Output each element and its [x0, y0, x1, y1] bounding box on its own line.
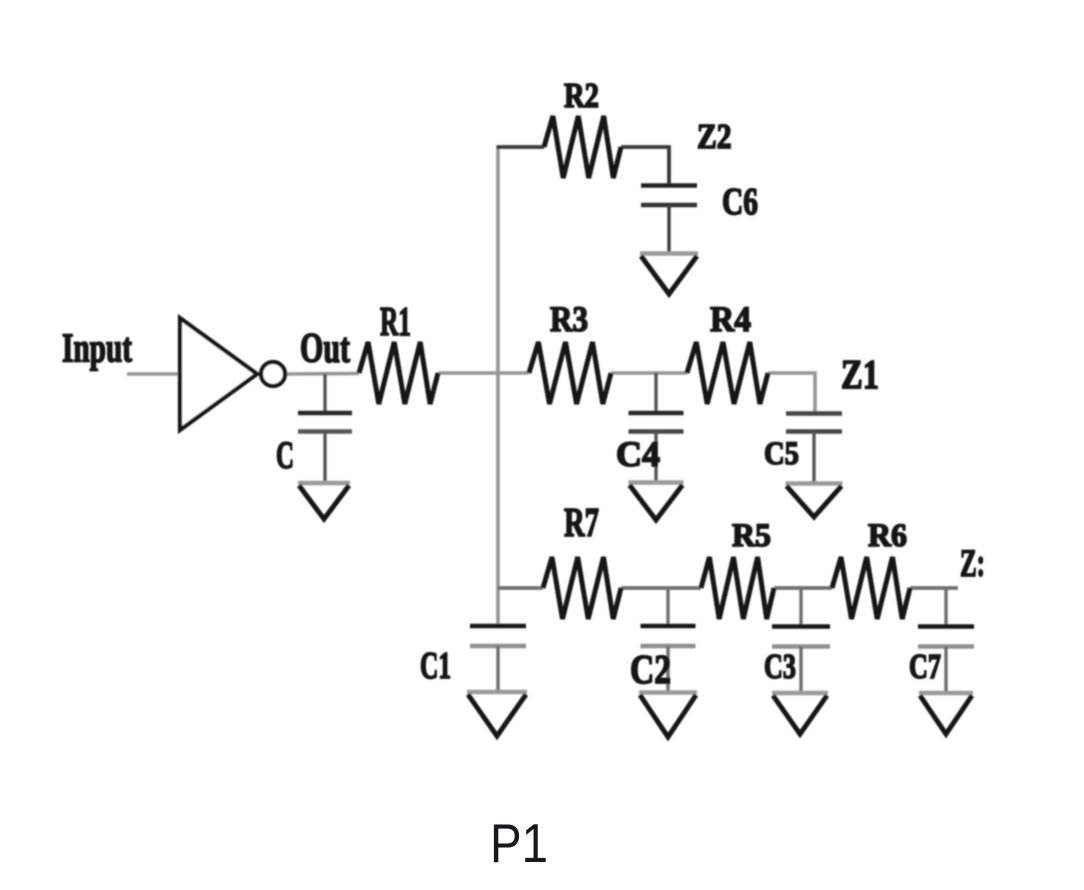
- capacitor C3: [772, 588, 830, 692]
- svg-text:C2: C2: [630, 647, 671, 692]
- svg-text:C3: C3: [764, 647, 796, 686]
- svg-text:C7: C7: [909, 647, 941, 686]
- inverter U1 output bubble: [261, 362, 285, 386]
- svg-text:R1: R1: [380, 299, 411, 344]
- svg-text:R5: R5: [732, 517, 771, 554]
- ground under C3: [772, 693, 828, 734]
- ground under C: [298, 483, 350, 519]
- svg-text:R6: R6: [868, 517, 907, 554]
- resistor R3: [529, 342, 611, 404]
- ground under C6: [640, 254, 698, 295]
- svg-text:C: C: [276, 433, 294, 477]
- ground under C1: [467, 692, 527, 736]
- svg-text:Z:: Z:: [960, 541, 985, 585]
- wire R6 to Z (node C7): [910, 586, 958, 590]
- capacitor C6: [641, 186, 697, 254]
- svg-text:C6: C6: [722, 181, 758, 223]
- resistor R7: [543, 557, 621, 619]
- resistor R4: [687, 342, 768, 404]
- resistor R5: [701, 557, 774, 619]
- svg-text:R7: R7: [564, 500, 599, 545]
- ground under C7: [919, 693, 973, 734]
- svg-text:C1: C1: [420, 645, 451, 687]
- svg-text:Z2: Z2: [697, 117, 732, 156]
- resistor R2: [544, 116, 621, 178]
- wire R3 to R4 (node C4): [611, 371, 687, 375]
- ground under C2: [639, 693, 697, 738]
- wire Out node to R1: [286, 372, 359, 376]
- capacitor C7: [918, 588, 974, 692]
- ground under C4: [629, 483, 684, 521]
- svg-text:R2: R2: [564, 76, 599, 115]
- wire R7 to R5 (node C2): [621, 586, 701, 590]
- svg-text:Out: Out: [300, 325, 350, 372]
- wire R1 to R3 through node: [438, 371, 529, 375]
- capacitor C: [298, 374, 352, 483]
- svg-text:Z1: Z1: [841, 352, 879, 397]
- svg-text:Input: Input: [62, 326, 132, 371]
- wire trunk to R7: [498, 586, 543, 590]
- capacitor C5: [786, 412, 842, 483]
- svg-text:C5: C5: [764, 435, 799, 472]
- capacitor C4: [629, 373, 684, 482]
- wire trunk top corner to R2: [497, 145, 545, 149]
- wire R2 to Z2 corner: [621, 147, 669, 186]
- inverter U1 triangle: [180, 318, 257, 430]
- wire vertical trunk node to C1: [496, 146, 500, 628]
- capacitor C2: [641, 588, 696, 692]
- wire input to inverter: [127, 372, 180, 376]
- capacitor C1: [470, 626, 526, 691]
- wire R4 to Z1 corner: [768, 373, 815, 412]
- svg-text:R3: R3: [550, 299, 588, 339]
- svg-text:C4: C4: [616, 434, 660, 474]
- svg-text:R4: R4: [710, 299, 751, 339]
- ground under C5: [786, 484, 843, 518]
- resistor R6: [832, 557, 910, 619]
- wire R5 to R6 (node C3): [774, 586, 832, 590]
- svg-text:P1: P1: [490, 812, 548, 874]
- resistor R1: [359, 342, 438, 404]
